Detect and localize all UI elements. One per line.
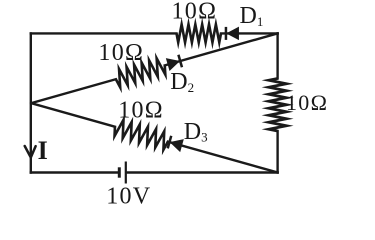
resistor 10ohm (branch D3) [115, 120, 168, 150]
wire right side (bottom part) [276, 131, 278, 173]
wire bottom-left segment [31, 171, 118, 173]
wire branch D3 (left segment) [31, 103, 115, 127]
wire top-right segment [221, 32, 278, 34]
current arrow I [25, 146, 36, 158]
wire bottom-right segment [127, 171, 278, 173]
svg-text:I: I [38, 136, 48, 165]
svg-text:10Ω: 10Ω [118, 98, 164, 124]
wire branch D2 (left segment) [31, 79, 116, 103]
wire branch D3 (right segment) [168, 142, 278, 173]
wire top-left segment [31, 32, 177, 34]
diode D3 [171, 140, 183, 151]
svg-text:10Ω: 10Ω [98, 40, 144, 66]
diode D1 [227, 28, 238, 40]
battery 10V [118, 167, 121, 177]
svg-text:10Ω: 10Ω [286, 90, 328, 115]
resistor 10ohm (branch D2) [116, 58, 165, 87]
wire right side (top part) [276, 33, 278, 78]
wire branch D2 (right segment) [165, 33, 278, 65]
diode D2 [167, 59, 179, 70]
svg-text:10Ω: 10Ω [172, 0, 218, 25]
resistor 10ohm (top branch) [177, 24, 222, 42]
resistor 10ohm (right side) [269, 79, 287, 132]
svg-text:10V: 10V [106, 184, 151, 210]
wire left side [30, 33, 32, 172]
